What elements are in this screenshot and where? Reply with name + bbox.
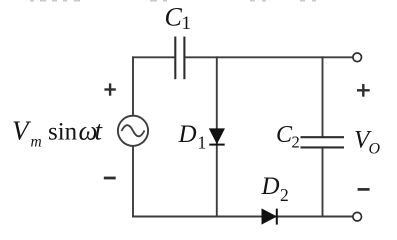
wire: C2 branch upper (top rail to C2 top plate) bbox=[322, 56, 324, 136]
capacitor C2: bottom plate bbox=[301, 146, 345, 148]
AC source Vs (circle with sine) bbox=[118, 116, 148, 146]
svg-text:m: m bbox=[31, 133, 42, 150]
wire: top rail right segment (C1 right plate to top output terminal) bbox=[185, 56, 353, 58]
wire: D1 branch vertical (top rail to bottom rail) bbox=[216, 56, 218, 217]
diode D2: cathode bar bbox=[276, 209, 278, 225]
output terminal (bottom right, open circle) bbox=[353, 212, 362, 221]
sine symbol inside source bbox=[122, 125, 145, 136]
cropped text remnants at very top bbox=[30, 0, 316, 2]
svg-text:C: C bbox=[165, 3, 183, 32]
wire: bottom rail (left branch to bottom output terminal, through D2) bbox=[132, 216, 353, 218]
svg-text:sin: sin bbox=[48, 119, 78, 146]
diode D1 (vertical, pointing down): triangle bbox=[209, 129, 224, 144]
plus sign (output, top right) bbox=[357, 84, 370, 97]
svg-text:C: C bbox=[276, 122, 293, 148]
capacitor C2 (shunt, right branch): top plate bbox=[301, 136, 345, 138]
wire: left branch lower (source to bottom rail) bbox=[132, 146, 134, 217]
diode D1: cathode bar bbox=[209, 144, 224, 146]
svg-text:O: O bbox=[369, 141, 381, 158]
minus sign (output, bottom right) bbox=[358, 188, 370, 191]
diode D2 (horizontal on bottom rail, pointing right): triangle bbox=[262, 209, 277, 224]
svg-text:D: D bbox=[178, 121, 197, 148]
wire: left branch upper (top rail to source) bbox=[132, 56, 134, 116]
svg-text:1: 1 bbox=[198, 133, 207, 153]
minus sign (source, bottom left) bbox=[104, 177, 116, 180]
svg-text:2: 2 bbox=[280, 185, 289, 205]
svg-text:1: 1 bbox=[182, 13, 192, 34]
capacitor C1: right plate bbox=[183, 37, 185, 80]
plus sign (source, top left) bbox=[104, 83, 115, 95]
svg-text:2: 2 bbox=[292, 133, 300, 152]
wire: C2 branch lower (C2 bottom plate to bottom rail) bbox=[322, 148, 324, 217]
capacitor C1 (series, top rail): left plate bbox=[174, 37, 176, 80]
svg-text:D: D bbox=[261, 173, 280, 200]
output terminal (top right, open circle) bbox=[353, 53, 362, 62]
wire: top rail left segment (source top to C1 left plate) bbox=[132, 56, 174, 58]
